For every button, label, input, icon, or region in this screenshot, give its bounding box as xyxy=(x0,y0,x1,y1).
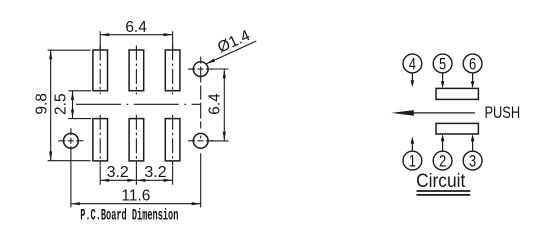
svg-text:Circuit: Circuit xyxy=(416,169,465,191)
arrow pin 3 xyxy=(471,134,475,141)
arrow pin 5 xyxy=(441,81,445,88)
crosshair hole top-right horizontal xyxy=(188,68,213,70)
lead pin 2 xyxy=(442,141,444,151)
arrow pin 4 xyxy=(411,80,415,87)
centerline pad col1 top xyxy=(99,46,101,95)
lead pin 6 xyxy=(472,73,474,82)
terminal circle 3 xyxy=(463,151,482,170)
crosshair hole bottom-right horizontal xyxy=(188,140,213,142)
arrow 6.4 top left xyxy=(100,33,109,36)
arrow 2.5 bottom xyxy=(71,110,74,119)
centerline pad col1 bottom xyxy=(99,115,101,165)
extension line dim 9.8 bottom xyxy=(48,160,91,162)
extension line dim 6.4 top left xyxy=(99,31,101,49)
svg-text:3: 3 xyxy=(469,152,476,171)
arrow 11.6 left xyxy=(71,202,80,205)
extension line dim 2.5 top xyxy=(68,90,91,92)
dimension line 11.6 xyxy=(71,203,201,205)
arrow 11.6 right xyxy=(192,202,201,205)
centerline pad col2 top xyxy=(135,46,137,95)
svg-text:1: 1 xyxy=(409,152,416,171)
centerline pad col2 bottom xyxy=(135,115,137,165)
crosshair hole bottom-left vertical xyxy=(70,128,72,152)
arrow pin 6 xyxy=(471,81,475,88)
svg-text:3.2: 3.2 xyxy=(144,164,166,181)
lead pin 3 xyxy=(472,141,474,151)
mounting hole bottom-right xyxy=(193,133,208,148)
pad top-left xyxy=(93,50,108,91)
extension line dim 3.2 col1 xyxy=(99,166,101,185)
lead pin 1 xyxy=(411,143,413,151)
extension line dim 6.4 right upper xyxy=(209,68,228,70)
pad bottom-middle xyxy=(129,119,144,161)
arrow 6.4 top right xyxy=(164,33,173,36)
arrow 3.2 right xyxy=(164,179,173,182)
arrow 6.4 right top xyxy=(223,69,226,78)
svg-text:2.5: 2.5 xyxy=(52,93,69,115)
svg-text:9.8: 9.8 xyxy=(34,93,51,115)
terminal circle 5 xyxy=(433,54,452,73)
underline Circuit 2 xyxy=(417,194,471,196)
lead pin 5 xyxy=(442,73,444,82)
arrow dia 1.4 xyxy=(206,59,215,64)
lead pin 4 xyxy=(411,73,413,81)
extension line 11.6 left xyxy=(70,152,72,208)
arrow 9.8 bottom xyxy=(49,152,52,161)
svg-text:6: 6 xyxy=(469,55,476,74)
svg-text:11.6: 11.6 xyxy=(121,188,150,205)
arrow pin 1 xyxy=(411,137,415,144)
horizontal centerline xyxy=(76,103,201,105)
extension line dim 3.2 col3 xyxy=(172,166,174,185)
push arrowhead xyxy=(391,110,414,116)
arrow 3.2 left xyxy=(100,179,109,182)
centerline holes right vertical xyxy=(200,57,202,154)
mounting hole bottom-left xyxy=(64,133,79,148)
underline Circuit 1 xyxy=(417,190,471,192)
arrow 9.8 top xyxy=(49,50,52,59)
crosshair hole bottom-left horizontal xyxy=(58,140,83,142)
svg-text:P.C.Board Dimension: P.C.Board Dimension xyxy=(80,207,178,224)
mounting hole top-right xyxy=(193,62,208,77)
svg-text:6.4: 6.4 xyxy=(125,19,147,36)
dimension line 3.2 xyxy=(100,179,172,181)
svg-text:3.2: 3.2 xyxy=(107,164,129,181)
dimension line 2.5 xyxy=(72,91,74,119)
pad bottom-left xyxy=(93,119,108,161)
svg-text:6.4: 6.4 xyxy=(207,93,224,115)
extension line dim 6.4 right lower xyxy=(209,140,228,142)
arrow 2.5 top xyxy=(71,91,74,100)
terminal circle 2 xyxy=(433,151,452,170)
leader line dia 1.4 xyxy=(206,41,256,64)
arrow 3.2 mid-right xyxy=(136,179,145,182)
push arrow line xyxy=(409,112,475,114)
contact bar bottom xyxy=(436,123,478,134)
arrow 3.2 mid-left xyxy=(127,179,136,182)
dimension line 6.4 top xyxy=(100,34,172,36)
terminal circle 4 xyxy=(403,54,422,73)
extension line dim 3.2 col2 xyxy=(135,166,137,185)
centerline pad col3 bottom xyxy=(172,115,174,165)
terminal circle 6 xyxy=(463,54,482,73)
dimension line 6.4 right xyxy=(223,69,225,141)
svg-text:PUSH: PUSH xyxy=(484,104,520,122)
pad bottom-right xyxy=(165,119,180,161)
dimension line 9.8 xyxy=(50,50,52,160)
extension line dim 2.5 bottom xyxy=(68,118,91,120)
terminal circle 1 xyxy=(403,151,422,170)
contact bar top xyxy=(436,88,478,99)
extension line dim 6.4 top right xyxy=(172,31,174,49)
pad top-right xyxy=(165,50,180,91)
extension line dim 9.8 top xyxy=(48,49,91,51)
extension line 11.6 right xyxy=(200,153,202,207)
svg-text:4: 4 xyxy=(409,55,416,74)
arrow 6.4 right bottom xyxy=(223,132,226,141)
svg-text:5: 5 xyxy=(439,55,446,74)
centerline pad col3 top xyxy=(172,46,174,95)
pad top-middle xyxy=(129,50,144,91)
arrow pin 2 xyxy=(441,134,445,141)
